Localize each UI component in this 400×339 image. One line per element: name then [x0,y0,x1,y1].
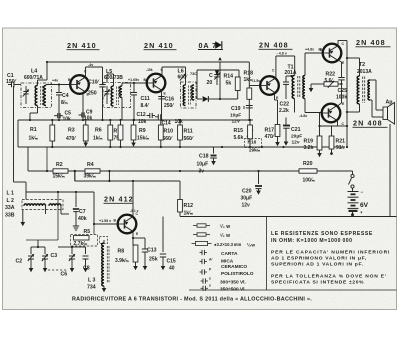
oscillator coil L3 core [106,246,108,283]
wire bus C y171 [28,170,353,172]
wire T2 primary top [359,58,361,76]
wire top rail [47,61,220,63]
IF transformer L5 box [103,83,131,108]
wire L4 primary top to rail [37,80,39,86]
wire T2 secondary to speaker [370,79,376,81]
wire L6 leads [185,82,187,85]
wire detector vertical [219,62,221,99]
wire Q1 base [45,85,47,86]
legend divider [266,217,268,291]
IF transformer L6 secondary winding [192,85,194,100]
wire R19 top link [320,125,338,127]
legend item carta capacitor [200,252,203,254]
wire Q2 emitter down [161,90,163,120]
trimmer capacitor in L5 [106,86,108,91]
wire T1 secondary bottom to Q5 base [304,99,306,113]
antenna ferrite rod box [22,200,63,210]
wire Q2 collector up [161,67,163,76]
IF transformer L4 box [21,83,52,108]
wire Q6 collector up [132,203,134,217]
IF transformer L5 core [116,87,118,106]
wire antenna left [25,192,27,200]
wire C2 C3 top [31,246,45,248]
transistor Q4 [323,44,342,63]
trimmer capacitor in L4 [25,86,27,91]
wire T1 secondary top to Q4 base [304,53,306,76]
IF transformer L5 secondary winding [120,86,122,98]
wire input drop [13,86,15,182]
wire bus D segments [14,181,27,183]
transformer T2 core [362,77,364,104]
wire C6 C8 top [72,246,86,248]
wire L5 secondary to Q2 base [121,83,123,86]
wire R5 connections [93,224,95,235]
wire Q5 emitter junction [341,84,343,103]
wire C22 top [286,75,292,77]
transformer T1 primary winding [292,76,294,99]
legend bottom line [189,289,397,291]
wire rail to R18 [220,61,249,63]
transformer T2 primary winding [357,76,359,104]
legend item 300-350 Vl [201,280,204,282]
wire L5 taps [106,74,108,83]
IF transformer L6 box [181,82,197,108]
antenna winding L2 [49,204,61,206]
legend item mica ceramico capacitor [200,261,203,263]
transistor Q3 [260,76,279,95]
legend item polistirolo capacitor [200,271,203,273]
IF transformer L4 secondary winding [44,85,46,105]
transistor Q6 [118,215,137,234]
IF transformer L4 primary winding [35,85,37,105]
wire T2 primary bottom [359,104,361,112]
legend item 350-500 Vl [201,287,204,289]
trimmer capacitor in L6 area [180,74,186,81]
wire Q3 collector [275,56,277,78]
wire Q5 emitter to R19 [319,113,321,127]
wire Q4 right leads [337,41,339,47]
IF transformer L6 core [188,86,190,105]
wire Q3 emitter [274,94,276,101]
wire output rail [346,41,348,148]
antenna winding L1 [24,204,46,206]
wire bus D drop to C7 [75,192,77,196]
wire bus C drops [46,147,48,171]
speaker [383,107,388,120]
transistor Q1 [70,75,89,94]
transistor Q2 [147,74,166,93]
detector loop left wire [196,70,198,99]
IF transformer L6 primary winding [183,85,185,106]
switch [352,171,354,175]
wire antenna taps [45,205,47,215]
diode OA70 [197,98,202,100]
wire Q6 emitter down [132,231,134,245]
wire Q1 collector up [85,67,87,77]
wire Q5 right leads [338,103,342,106]
transformer T1 core [297,76,299,98]
capacitor C4 on Q1 base divider [58,85,60,93]
capacitor C11 [133,83,135,93]
battery 6V [348,191,359,193]
oscillator coil L3 [102,243,104,286]
wire T1 primary bottom [294,99,296,113]
legend item 1/2 W resistor [193,234,197,236]
wire Q6 base [94,223,118,225]
wire bottom bus y216 [180,216,397,218]
wire speaker down [389,124,391,217]
wire R18 to Q3 base [249,85,260,87]
transistor Q5 [322,104,341,123]
transformer T2 secondary winding [368,80,370,100]
ganged tuning dashed link [48,269,68,271]
detector loop right wire [238,70,240,77]
legend item power resistor [192,243,196,245]
wire L3 [103,240,105,243]
IF transformer L4 core [40,86,42,105]
wire C13 top [133,237,145,239]
IF transformer L5 primary winding [111,86,113,106]
wire bus B y147 [18,146,345,148]
detector loop top wire [197,69,239,71]
wire Q1 emitter down [82,92,84,120]
wire bus A y120 [18,119,253,121]
transformer T1 secondary winding [303,76,305,99]
wire L4 bottom to bus [37,106,39,114]
wire vertical left end [17,120,19,147]
legend item 1/3 W resistor [193,225,197,227]
